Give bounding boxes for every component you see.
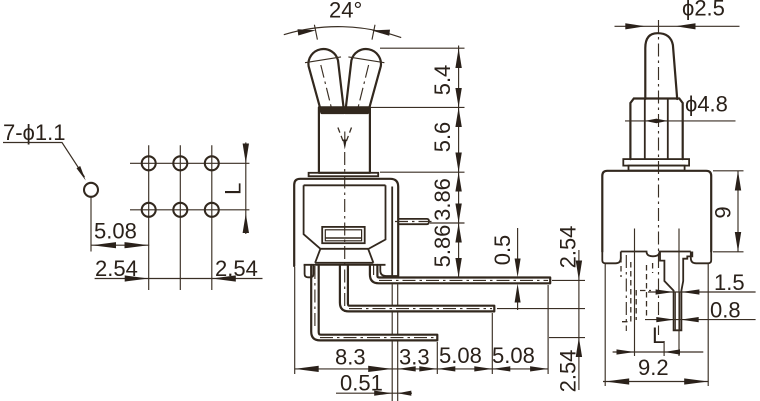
- svg-text:3.3: 3.3: [399, 345, 430, 370]
- svg-text:3.86: 3.86: [430, 178, 455, 221]
- svg-text:9.2: 9.2: [638, 355, 669, 380]
- svg-text:5.86: 5.86: [430, 225, 455, 268]
- svg-text:0.8: 0.8: [710, 298, 741, 323]
- svg-text:2.54: 2.54: [556, 350, 581, 393]
- svg-text:8.3: 8.3: [335, 345, 366, 370]
- svg-text:9: 9: [711, 206, 736, 218]
- svg-text:24°: 24°: [329, 0, 362, 23]
- svg-text:L: L: [652, 323, 664, 348]
- svg-text:2.54: 2.54: [556, 226, 581, 269]
- svg-text:5.08: 5.08: [439, 343, 482, 368]
- svg-text:L: L: [221, 183, 246, 195]
- svg-text:ϕ2.5: ϕ2.5: [682, 0, 725, 20]
- svg-text:ϕ4.8: ϕ4.8: [685, 92, 728, 117]
- svg-text:7-ϕ1.1: 7-ϕ1.1: [3, 120, 65, 145]
- svg-text:1.5: 1.5: [714, 270, 745, 295]
- svg-text:0.5: 0.5: [490, 235, 515, 266]
- svg-text:5.4: 5.4: [430, 65, 455, 96]
- svg-text:2.54: 2.54: [215, 256, 258, 281]
- svg-text:5.6: 5.6: [430, 122, 455, 153]
- svg-text:5.08: 5.08: [94, 219, 137, 244]
- svg-text:5.08: 5.08: [492, 343, 535, 368]
